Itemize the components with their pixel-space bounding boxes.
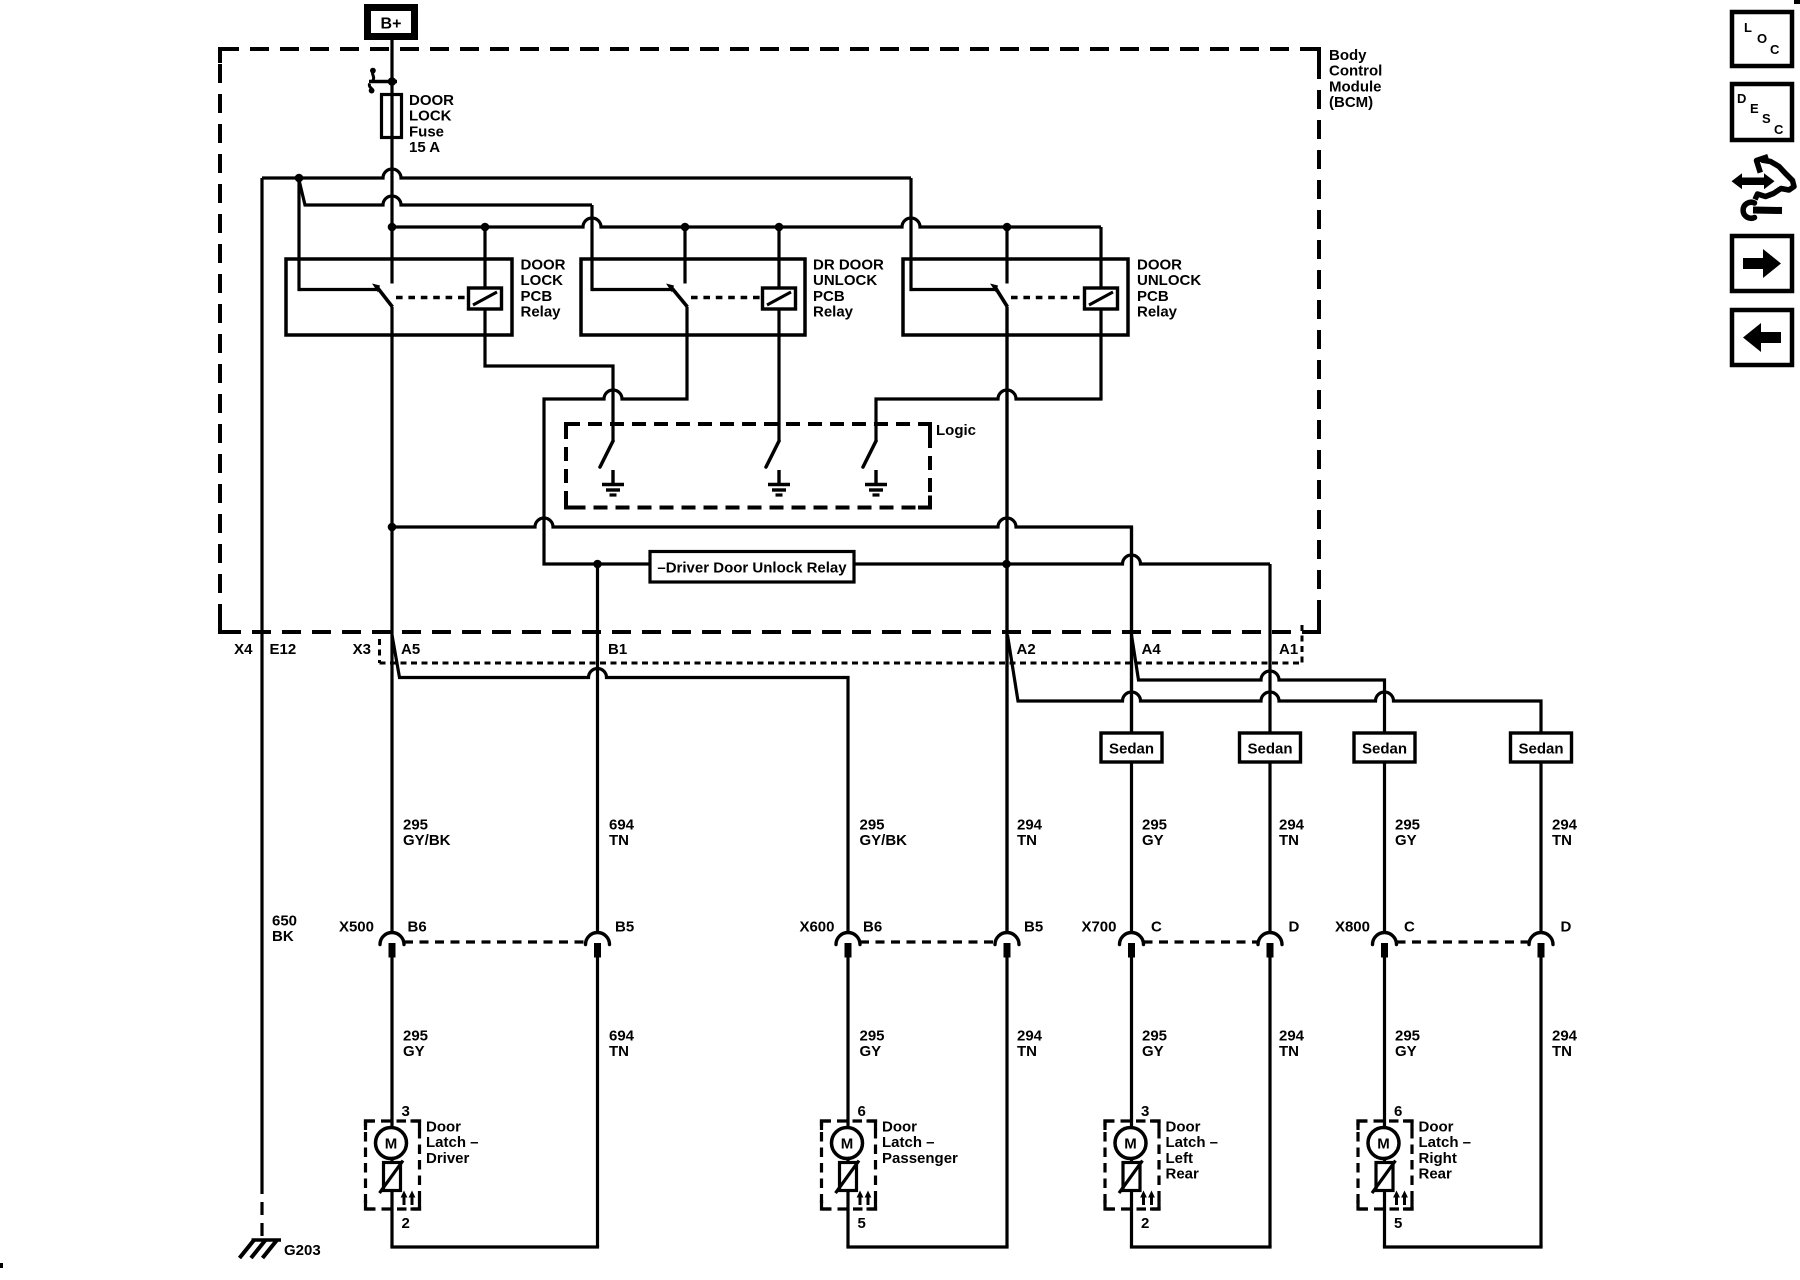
svg-text:DOOR: DOOR [1137,257,1182,274]
svg-text:TN: TN [1552,832,1572,849]
svg-text:DOOR: DOOR [409,92,454,109]
svg-text:A5: A5 [401,641,420,658]
svg-text:D: D [1289,919,1300,936]
svg-text:B6: B6 [863,919,882,936]
svg-text:UNLOCK: UNLOCK [813,272,877,289]
svg-text:TN: TN [1279,1043,1299,1060]
svg-text:Sedan: Sedan [1518,741,1563,758]
svg-text:TN: TN [609,832,629,849]
svg-text:Logic: Logic [936,422,976,439]
svg-text:A4: A4 [1142,641,1162,658]
svg-text:Passenger: Passenger [882,1150,958,1167]
svg-text:15 A: 15 A [409,139,440,156]
svg-text:6: 6 [858,1103,866,1120]
svg-text:–Driver Door Unlock Relay: –Driver Door Unlock Relay [657,560,847,577]
svg-text:X600: X600 [799,919,834,936]
svg-text:A1: A1 [1279,641,1298,658]
svg-text:Door: Door [882,1119,917,1136]
svg-text:GY: GY [1395,1043,1417,1060]
svg-text:PCB: PCB [813,288,845,305]
svg-text:294: 294 [1017,1028,1043,1045]
svg-text:C: C [1404,919,1415,936]
svg-text:295: 295 [1142,1028,1167,1045]
svg-text:Control: Control [1329,63,1382,80]
svg-text:TN: TN [609,1043,629,1060]
svg-text:GY: GY [1142,832,1164,849]
svg-text:295: 295 [860,1028,885,1045]
svg-text:Latch –: Latch – [1166,1134,1219,1151]
svg-text:Sedan: Sedan [1362,741,1407,758]
svg-text:694: 694 [609,1028,635,1045]
svg-text:Fuse: Fuse [409,123,444,140]
svg-text:Door: Door [1166,1119,1201,1136]
svg-text:2: 2 [1141,1215,1149,1232]
svg-text:O: O [1757,31,1767,46]
svg-text:Rear: Rear [1419,1166,1453,1183]
svg-text:GY/BK: GY/BK [860,832,908,849]
svg-text:295: 295 [403,817,428,834]
svg-text:X800: X800 [1335,919,1370,936]
svg-text:294: 294 [1017,817,1043,834]
svg-text:Latch –: Latch – [426,1134,479,1151]
svg-text:X3: X3 [353,641,371,658]
svg-text:PCB: PCB [521,288,553,305]
svg-text:295: 295 [1142,817,1167,834]
svg-text:GY: GY [860,1043,882,1060]
svg-text:X4: X4 [234,641,253,658]
svg-text:294: 294 [1552,817,1578,834]
svg-text:D: D [1561,919,1572,936]
svg-text:650: 650 [272,913,297,930]
svg-text:295: 295 [1395,817,1420,834]
svg-text:B+: B+ [381,16,402,33]
svg-text:TN: TN [1017,832,1037,849]
svg-text:DR DOOR: DR DOOR [813,257,884,274]
svg-text:Right: Right [1419,1150,1457,1167]
svg-text:2: 2 [402,1215,410,1232]
svg-text:Sedan: Sedan [1247,741,1292,758]
svg-text:295: 295 [860,817,885,834]
svg-text:E12: E12 [270,641,297,658]
svg-text:GY/BK: GY/BK [403,832,451,849]
svg-text:M: M [1124,1136,1137,1153]
svg-text:295: 295 [1395,1028,1420,1045]
svg-text:(BCM): (BCM) [1329,94,1373,111]
svg-text:3: 3 [1141,1103,1149,1120]
svg-text:Relay: Relay [813,304,854,321]
svg-text:B5: B5 [615,919,634,936]
svg-text:B6: B6 [408,919,427,936]
svg-text:LOCK: LOCK [409,108,452,125]
svg-text:Module: Module [1329,78,1382,95]
svg-text:Latch –: Latch – [882,1134,935,1151]
svg-text:3: 3 [402,1103,410,1120]
svg-text:E: E [1750,101,1759,116]
svg-text:GY: GY [1142,1043,1164,1060]
svg-text:294: 294 [1552,1028,1578,1045]
svg-text:B1: B1 [608,641,627,658]
svg-text:Sedan: Sedan [1109,741,1154,758]
svg-text:UNLOCK: UNLOCK [1137,272,1201,289]
svg-text:Relay: Relay [521,304,562,321]
svg-text:6: 6 [1394,1103,1402,1120]
svg-text:G203: G203 [284,1242,321,1259]
svg-text:Rear: Rear [1166,1166,1200,1183]
svg-text:694: 694 [609,817,635,834]
svg-text:M: M [1377,1136,1390,1153]
svg-text:D: D [1737,91,1746,106]
svg-text:LOCK: LOCK [521,272,564,289]
svg-text:Latch –: Latch – [1419,1134,1472,1151]
svg-text:TN: TN [1279,832,1299,849]
svg-text:Relay: Relay [1137,304,1178,321]
svg-text:C: C [1770,42,1780,57]
svg-text:5: 5 [858,1215,866,1232]
svg-text:M: M [385,1136,398,1153]
svg-text:C: C [1151,919,1162,936]
svg-text:295: 295 [403,1028,428,1045]
svg-text:S: S [1762,111,1771,126]
svg-text:Body: Body [1329,47,1367,64]
svg-text:5: 5 [1394,1215,1402,1232]
svg-text:X700: X700 [1081,919,1116,936]
svg-text:Door: Door [1419,1119,1454,1136]
svg-text:DOOR: DOOR [521,257,566,274]
svg-text:PCB: PCB [1137,288,1169,305]
svg-text:GY: GY [1395,832,1417,849]
svg-text:294: 294 [1279,1028,1305,1045]
svg-text:Driver: Driver [426,1150,470,1167]
svg-text:B5: B5 [1024,919,1043,936]
svg-text:Door: Door [426,1119,461,1136]
svg-text:M: M [841,1136,854,1153]
svg-text:TN: TN [1552,1043,1572,1060]
svg-text:GY: GY [403,1043,425,1060]
svg-text:TN: TN [1017,1043,1037,1060]
svg-text:A2: A2 [1017,641,1036,658]
svg-text:L: L [1744,20,1752,35]
svg-text:X500: X500 [339,919,374,936]
svg-text:Left: Left [1166,1150,1194,1167]
svg-text:294: 294 [1279,817,1305,834]
svg-text:BK: BK [272,928,294,945]
svg-text:C: C [1774,122,1784,137]
